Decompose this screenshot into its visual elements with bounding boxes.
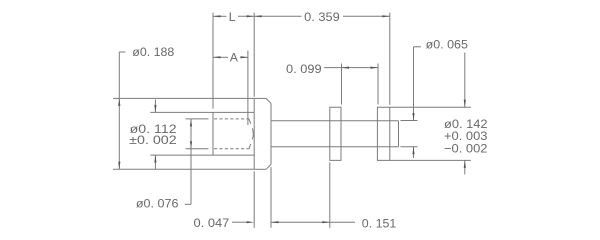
svg-text:L: L bbox=[229, 10, 236, 24]
svg-text:0. 359: 0. 359 bbox=[304, 10, 340, 24]
svg-text:ø0. 076: ø0. 076 bbox=[136, 197, 179, 211]
svg-text:0. 047: 0. 047 bbox=[194, 216, 230, 230]
svg-text:−0. 002: −0. 002 bbox=[444, 141, 488, 155]
svg-text:ø0. 065: ø0. 065 bbox=[426, 37, 469, 51]
svg-text:0. 099: 0. 099 bbox=[286, 62, 322, 76]
svg-text:0. 151: 0. 151 bbox=[362, 216, 397, 230]
svg-text:±0. 002: ±0. 002 bbox=[129, 133, 177, 147]
svg-text:ø0. 188: ø0. 188 bbox=[132, 45, 174, 59]
svg-text:A: A bbox=[230, 51, 239, 65]
